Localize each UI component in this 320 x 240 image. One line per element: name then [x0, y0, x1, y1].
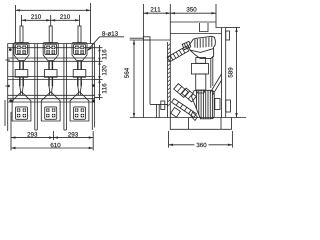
leader 8-d13: [87, 37, 124, 51]
contact block lower: [182, 88, 196, 102]
latch right: [226, 100, 231, 112]
mid upright between pole1 and pole2: [34, 44, 36, 131]
stem foot 2: [64, 129, 67, 131]
enclosure bottom long line: [130, 117, 246, 119]
lower block: [196, 74, 206, 90]
frame rail line y95.3: [8, 94, 95, 96]
dimension 211/350 line: [143, 4, 216, 40]
plate foot: [150, 104, 168, 117]
arm foot block: [171, 107, 181, 117]
frame right outer edge: [94, 44, 96, 128]
pole 3 top box: [72, 43, 87, 96]
handle arm: [172, 99, 197, 118]
label 120: [102, 65, 106, 75]
frame rail line y102: [8, 101, 95, 103]
dimension 564: [133, 40, 135, 118]
dimension 293 right: [54, 136, 94, 138]
label 293 left: [27, 132, 37, 136]
dimension 210 right: [51, 19, 80, 21]
label 589: [228, 68, 232, 78]
mid upright stem pair 2: [65, 44, 67, 131]
dimension 610: [11, 112, 93, 151]
right edge bolt dot: [92, 84, 95, 87]
label 210 left: [31, 14, 41, 18]
dimension 210 left: [22, 19, 51, 21]
pole 1 top box: [14, 43, 29, 96]
handle ribbed body: [192, 90, 215, 119]
busbar top line: [130, 39, 171, 41]
diagonal rod: [210, 74, 222, 95]
lower block foot: [197, 90, 206, 93]
label 350: [187, 7, 197, 11]
label 116 upper: [102, 50, 106, 60]
pole 3 bottom box: [70, 92, 89, 121]
grip beak: [182, 41, 191, 50]
pole 2 bottom box: [41, 92, 60, 121]
handle bottom tip: [191, 112, 198, 121]
frame rail line y76.5: [8, 76, 95, 78]
pole 2 top box: [43, 43, 58, 96]
dimension 293 left: [11, 136, 54, 138]
frame rail line y58: [8, 57, 95, 59]
frame rail line y98.7: [8, 98, 95, 100]
label 116 lower: [102, 84, 106, 94]
pedestal inner line 2: [220, 118, 222, 130]
frame left edge: [7, 44, 9, 132]
pedestal: [170, 118, 231, 130]
pole 1 bottom box: [12, 92, 31, 121]
fuse base block: [191, 64, 208, 75]
dimension 360: [169, 131, 233, 148]
label 564: [124, 68, 128, 78]
chain dimension line 116/120/116: [95, 45, 103, 100]
knockout 360: [195, 142, 209, 148]
right end bottom clamp dot: [92, 100, 95, 103]
dimension 589: [226, 28, 240, 118]
frame rail line y61.3: [8, 60, 95, 62]
lock block: [215, 99, 220, 110]
enclosure inner ceiling: [170, 33, 221, 35]
frame left inner edge: [12, 44, 14, 103]
contact block upper: [174, 84, 188, 98]
label 293 right: [68, 132, 78, 136]
top bracket: [200, 23, 209, 32]
guide channel: [211, 56, 213, 88]
linkage arm upper: [167, 46, 189, 62]
left end bottom clamp dot: [9, 99, 12, 102]
left edge bolt dot: [7, 85, 9, 87]
mounting plate front face: [142, 40, 144, 118]
left edge tick y60: [6, 59, 10, 61]
top overall dimension line: [16, 3, 91, 44]
enclosure top-right step: [216, 22, 226, 28]
left end top clamp dot: [9, 48, 12, 51]
roller block: [196, 58, 206, 64]
top hinge right: [226, 31, 230, 40]
stem foot 1: [35, 129, 38, 131]
frame right edge: [91, 44, 93, 131]
enclosure left wall: [169, 22, 171, 118]
mounting plate back face: [149, 40, 151, 104]
left wall hatch: [168, 44, 171, 106]
enclosure box top: [170, 21, 216, 23]
frame rail line y43.5: [8, 43, 95, 45]
enclosure inner right wall: [221, 28, 223, 118]
side block left of foot: [161, 101, 165, 110]
enclosure left wall inner: [167, 42, 169, 106]
pole 1 rod: [21, 15, 23, 26]
left hanging line: [4, 100, 6, 126]
pole 3 rod: [79, 15, 81, 26]
fuse grip: [188, 36, 215, 58]
mid upright stem pair 1: [36, 44, 38, 131]
label 210 right: [60, 14, 70, 18]
label 8-o13: [102, 31, 118, 35]
label 610: [51, 143, 61, 147]
label 211: [151, 7, 161, 11]
busbar upper line: [130, 37, 144, 39]
mid upright between pole2 and pole3: [63, 44, 65, 131]
enclosure right wall: [225, 28, 227, 118]
left edge tick y86: [6, 85, 10, 87]
foot bolt lines: [155, 104, 157, 117]
label 360: [197, 143, 207, 147]
pedestal inner line 1: [188, 118, 190, 130]
frame rail line y47.7: [8, 47, 95, 49]
plate top cap: [143, 37, 150, 40]
frame rail line y79.5: [8, 79, 95, 81]
pole 2 rod: [50, 15, 52, 26]
